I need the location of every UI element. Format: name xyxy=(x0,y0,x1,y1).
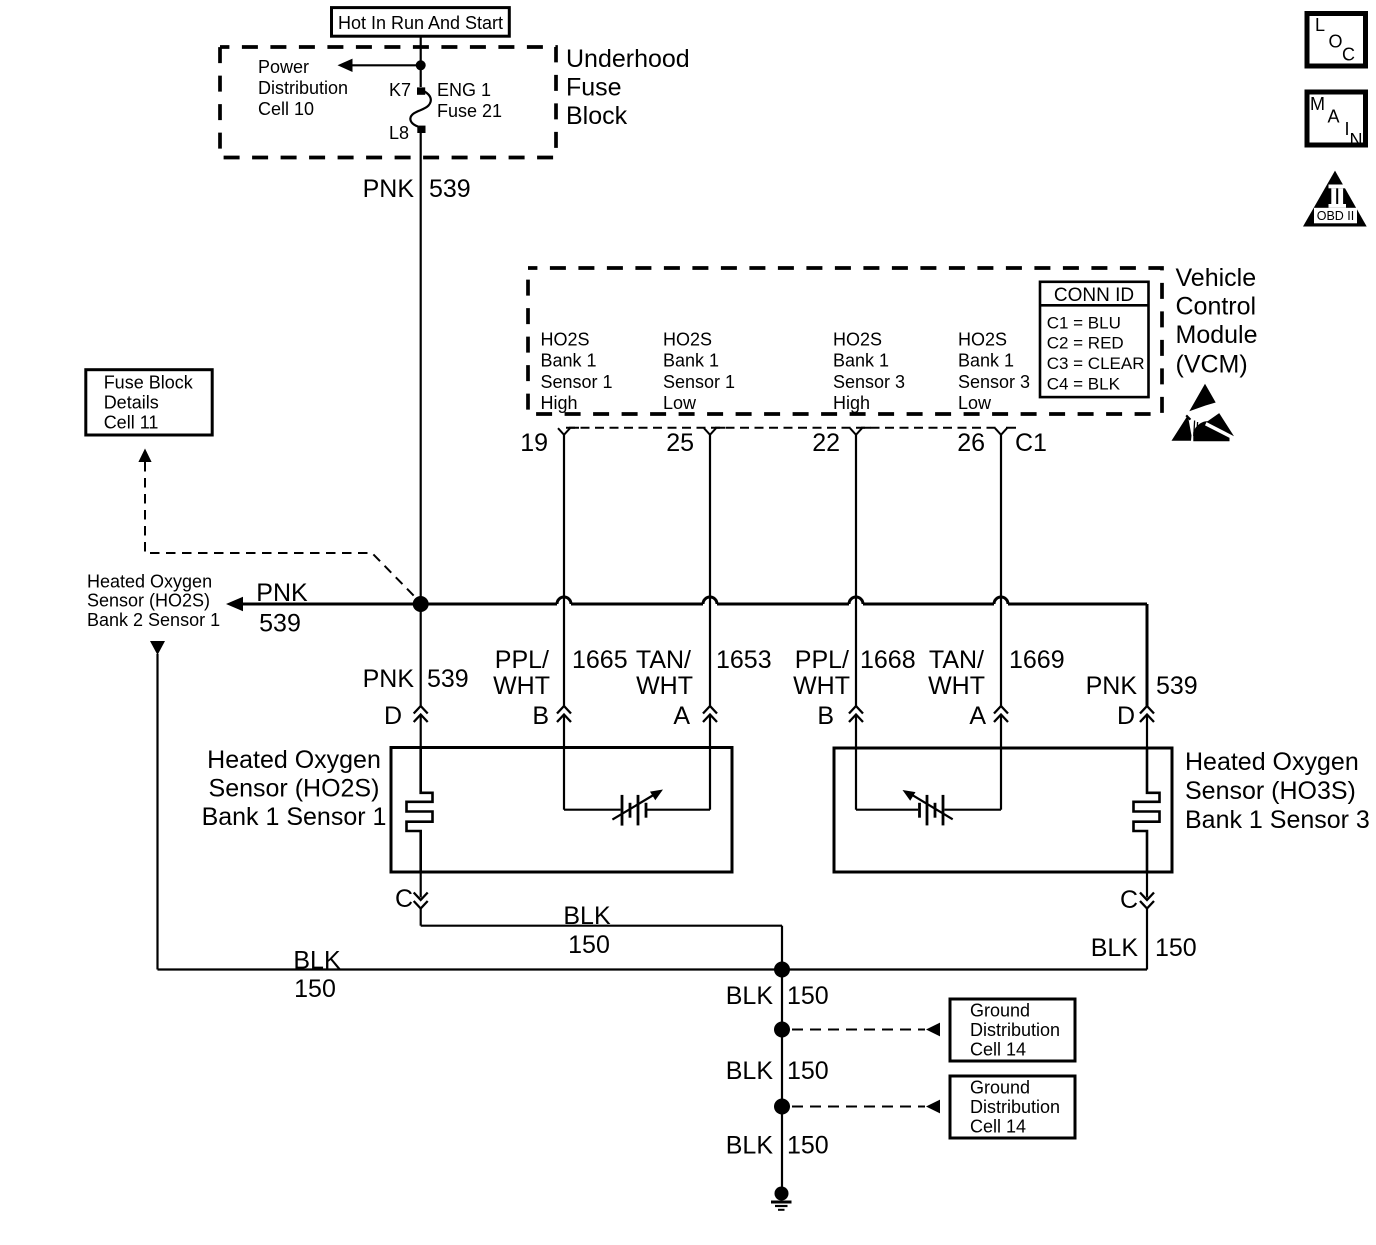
VCM connector terminal, pin 25 xyxy=(704,428,725,435)
wire: BLK 150 from right sensor C xyxy=(1146,909,1148,970)
heater element (left sensor) xyxy=(407,748,433,873)
svg-text:Ground: Ground xyxy=(970,1001,1030,1021)
Ground Distribution Cell 14 box (2) xyxy=(950,1076,1075,1138)
svg-text:A: A xyxy=(1328,107,1340,127)
svg-text:539: 539 xyxy=(429,175,471,203)
svg-text:Details: Details xyxy=(104,393,159,413)
svg-text:Bank 1: Bank 1 xyxy=(663,351,719,371)
svg-text:1653: 1653 xyxy=(716,646,772,674)
Underhood Fuse Block dashed box xyxy=(220,47,556,158)
svg-text:BLK: BLK xyxy=(726,1132,774,1160)
variable arrow (right sensor) xyxy=(912,795,953,820)
ground symbol G103 xyxy=(771,1187,792,1210)
svg-text:25: 25 xyxy=(666,429,694,457)
wire: BLK 150 ground drop xyxy=(781,970,783,1195)
junction node: PNK 539 main junction xyxy=(413,596,429,612)
svg-text:Vehicle: Vehicle xyxy=(1176,264,1257,292)
svg-text:22: 22 xyxy=(812,429,840,457)
left sensor pin C connector xyxy=(420,872,422,898)
svg-text:WHT: WHT xyxy=(793,672,850,700)
svg-text:WHT: WHT xyxy=(493,672,550,700)
svg-text:C1: C1 xyxy=(1015,429,1047,457)
svg-text:Heated Oxygen: Heated Oxygen xyxy=(207,746,381,774)
svg-text:Sensor (HO3S): Sensor (HO3S) xyxy=(1185,777,1356,805)
svg-text:Sensor 3: Sensor 3 xyxy=(958,372,1030,392)
svg-text:TAN/: TAN/ xyxy=(929,646,984,674)
svg-text:C4 = BLK: C4 = BLK xyxy=(1047,374,1121,393)
svg-text:Heated Oxygen: Heated Oxygen xyxy=(1185,748,1359,776)
label: HO2S Bank 1 Sensor 1 Low xyxy=(663,329,735,413)
svg-text:Bank 1: Bank 1 xyxy=(833,351,889,371)
junction node (ground tap 1) xyxy=(774,1022,790,1038)
svg-text:(VCM): (VCM) xyxy=(1176,350,1248,378)
svg-text:150: 150 xyxy=(787,1057,829,1085)
wire: junction to fuse terminal K7 xyxy=(420,65,422,87)
svg-text:Bank 1: Bank 1 xyxy=(541,351,597,371)
svg-text:PNK: PNK xyxy=(363,175,415,203)
junction node (ground tap 2) xyxy=(774,1099,790,1115)
svg-text:150: 150 xyxy=(787,1132,829,1160)
svg-text:PNK: PNK xyxy=(1086,672,1138,700)
wire: BLK 150 far-left vertical xyxy=(156,654,158,970)
VCM connector terminal, pin 22 xyxy=(850,428,871,435)
label: HO2S Bank 1 Sensor 3 Low xyxy=(958,329,1030,413)
svg-text:C: C xyxy=(395,885,413,913)
svg-text:PNK: PNK xyxy=(256,579,308,607)
svg-text:Fuse 21: Fuse 21 xyxy=(437,101,502,121)
svg-text:Cell 10: Cell 10 xyxy=(258,99,314,119)
svg-text:Ground: Ground xyxy=(970,1078,1030,1098)
svg-text:Sensor 1: Sensor 1 xyxy=(663,372,735,392)
svg-text:O: O xyxy=(1329,32,1343,52)
svg-text:TAN/: TAN/ xyxy=(636,646,691,674)
svg-text:Block: Block xyxy=(566,102,628,130)
svg-text:Cell 11: Cell 11 xyxy=(104,413,159,433)
wire from VCM pin at x=1001 down to sensor xyxy=(1000,435,1002,706)
svg-text:Sensor 3: Sensor 3 xyxy=(833,372,905,392)
VCM connector C1 dashed line xyxy=(566,427,999,429)
component box: Heated Oxygen Sensor (HO3S) Bank 1 Sensor 3 xyxy=(834,748,1172,872)
svg-text:Distribution: Distribution xyxy=(970,1020,1060,1040)
inline connector (double chevron) xyxy=(849,706,863,714)
svg-text:Sensor (HO2S): Sensor (HO2S) xyxy=(87,591,210,611)
wire: BLK 150 bottom horizontal xyxy=(158,968,1148,970)
Ground Distribution Cell 14 box (1) xyxy=(950,999,1075,1061)
svg-text:WHT: WHT xyxy=(928,672,985,700)
svg-text:BLK: BLK xyxy=(563,902,611,930)
wire: right PNK 539 drop at x=1147 xyxy=(1146,604,1149,706)
cell plates xyxy=(621,795,624,826)
svg-text:150: 150 xyxy=(294,975,336,1003)
svg-text:1668: 1668 xyxy=(860,646,916,674)
wire: arrow to Power Distribution xyxy=(353,64,421,66)
svg-text:Bank 2 Sensor 1: Bank 2 Sensor 1 xyxy=(87,610,220,630)
svg-text:D: D xyxy=(384,702,402,730)
cell plates xyxy=(918,803,921,818)
svg-text:Heated Oxygen: Heated Oxygen xyxy=(87,572,212,592)
wire: BLK 150 from left sensor C xyxy=(420,909,422,926)
svg-text:L8: L8 xyxy=(389,123,409,143)
wire from VCM pin at x=856 down to sensor xyxy=(855,435,857,706)
svg-text:Distribution: Distribution xyxy=(258,78,348,98)
right sensor pin C connector xyxy=(1146,872,1148,898)
icon: ESD sensitivity triangle xyxy=(1172,384,1235,441)
icon: OBD II triangle xyxy=(1303,171,1367,227)
svg-text:K7: K7 xyxy=(389,80,411,100)
svg-text:C: C xyxy=(1342,45,1355,65)
svg-text:BLK: BLK xyxy=(293,947,341,975)
svg-text:A: A xyxy=(673,702,690,730)
svg-text:1665: 1665 xyxy=(572,646,628,674)
svg-text:BLK: BLK xyxy=(726,982,774,1010)
dashed leader to Ground Distribution (2) xyxy=(792,1106,925,1108)
variable arrow (left sensor) xyxy=(612,795,653,820)
svg-text:539: 539 xyxy=(1156,672,1198,700)
label: HO2S Bank 1 Sensor 1 High xyxy=(541,329,613,413)
svg-text:539: 539 xyxy=(259,610,301,638)
svg-text:19: 19 xyxy=(520,429,548,457)
svg-text:High: High xyxy=(541,393,578,413)
svg-text:B: B xyxy=(532,702,549,730)
svg-text:C1 = BLU: C1 = BLU xyxy=(1047,313,1121,332)
svg-text:OBD II: OBD II xyxy=(1317,209,1355,223)
inline connector (double chevron) xyxy=(703,706,717,714)
inline connector (double chevron) xyxy=(557,706,571,714)
inline connector (double chevron) xyxy=(994,706,1008,714)
svg-text:ENG 1: ENG 1 xyxy=(437,80,491,100)
svg-text:BLK: BLK xyxy=(726,1057,774,1085)
wire: PNK 539 horizontal bus with hops xyxy=(243,597,1147,604)
CONN ID table xyxy=(1040,282,1149,397)
svg-text:M: M xyxy=(1310,94,1325,114)
component box: Heated Oxygen Sensor (HO2S) Bank 1 Sensor 1 xyxy=(391,748,732,873)
svg-text:150: 150 xyxy=(568,931,610,959)
fuse ENG 1 Fuse 21 (terminals K7/L8 and element) xyxy=(410,87,430,133)
svg-text:HO2S: HO2S xyxy=(833,329,882,349)
svg-text:C3 = CLEAR: C3 = CLEAR xyxy=(1047,354,1145,373)
svg-text:PPL/: PPL/ xyxy=(495,646,549,674)
svg-text:C2 = RED: C2 = RED xyxy=(1047,334,1124,353)
arrow: to HO2S Bank 2 Sensor 1 xyxy=(226,597,243,611)
svg-text:Power: Power xyxy=(258,57,309,77)
Fuse Block Details Cell 11 box xyxy=(86,370,212,435)
svg-text:Bank 1 Sensor 1: Bank 1 Sensor 1 xyxy=(202,803,387,831)
junction node: ground bus xyxy=(774,962,790,978)
svg-text:Fuse: Fuse xyxy=(566,74,622,102)
svg-text:N: N xyxy=(1350,130,1363,150)
svg-text:Bank 1: Bank 1 xyxy=(958,351,1014,371)
svg-text:Sensor (HO2S): Sensor (HO2S) xyxy=(209,775,380,803)
svg-text:L: L xyxy=(1315,15,1325,35)
sensing cell wiring (left sensor) xyxy=(563,748,565,810)
net label box: Hot In Run And Start xyxy=(332,8,510,37)
wire: Hot In Run And Start feed down into fuse block xyxy=(420,36,422,65)
icon: MAIN box xyxy=(1307,92,1366,150)
svg-text:Distribution: Distribution xyxy=(970,1097,1060,1117)
dashed leader to Ground Distribution (1) xyxy=(792,1029,925,1031)
svg-text:HO2S: HO2S xyxy=(541,329,590,349)
svg-text:Cell 14: Cell 14 xyxy=(970,1117,1026,1137)
VCM connector terminal, pin 26 xyxy=(995,428,1016,435)
wire: left PNK 539 drop at x=420.7 xyxy=(420,604,422,706)
svg-text:Bank 1 Sensor 3: Bank 1 Sensor 3 xyxy=(1185,806,1370,834)
svg-text:Low: Low xyxy=(663,393,697,413)
svg-text:HO2S: HO2S xyxy=(663,329,712,349)
svg-text:150: 150 xyxy=(1155,934,1197,962)
label: HO2S Bank 1 Sensor 3 High xyxy=(833,329,905,413)
svg-text:Cell 14: Cell 14 xyxy=(970,1040,1026,1060)
icon: LOC box xyxy=(1307,14,1366,67)
wire from VCM pin at x=710 down to sensor xyxy=(709,435,711,706)
dashed leader to Fuse Block Details xyxy=(145,462,419,601)
svg-text:26: 26 xyxy=(957,429,985,457)
svg-text:B: B xyxy=(817,702,834,730)
svg-text:C: C xyxy=(1120,886,1138,914)
Vehicle Control Module dashed box xyxy=(528,268,1162,414)
svg-text:Sensor 1: Sensor 1 xyxy=(541,372,613,392)
svg-text:1669: 1669 xyxy=(1009,646,1065,674)
svg-text:539: 539 xyxy=(427,665,469,693)
svg-text:High: High xyxy=(833,393,870,413)
svg-text:Hot In Run And Start: Hot In Run And Start xyxy=(338,13,503,33)
svg-text:PNK: PNK xyxy=(363,665,415,693)
svg-text:D: D xyxy=(1117,702,1135,730)
sensing cell wiring (right sensor) xyxy=(855,748,857,810)
svg-text:CONN ID: CONN ID xyxy=(1054,285,1134,306)
svg-text:Control: Control xyxy=(1176,293,1257,321)
svg-text:A: A xyxy=(969,702,986,730)
svg-text:PPL/: PPL/ xyxy=(795,646,849,674)
svg-text:Low: Low xyxy=(958,393,992,413)
svg-text:150: 150 xyxy=(787,982,829,1010)
off-page connector triangle (Bank 2 Sensor 1 branch) xyxy=(150,641,165,655)
wire: fuse L8 down to main junction, PNK 539 xyxy=(420,133,422,604)
svg-text:WHT: WHT xyxy=(636,672,693,700)
svg-text:HO2S: HO2S xyxy=(958,329,1007,349)
VCM connector terminal, pin 19 xyxy=(558,428,579,435)
svg-text:Underhood: Underhood xyxy=(566,45,690,73)
wire from VCM pin at x=564 down to sensor xyxy=(563,435,565,706)
svg-text:Module: Module xyxy=(1176,321,1258,349)
junction node: fuse feed xyxy=(416,60,426,70)
svg-text:Fuse Block: Fuse Block xyxy=(104,373,194,393)
svg-text:BLK: BLK xyxy=(1091,934,1139,962)
heater element (right sensor) xyxy=(1134,748,1160,872)
